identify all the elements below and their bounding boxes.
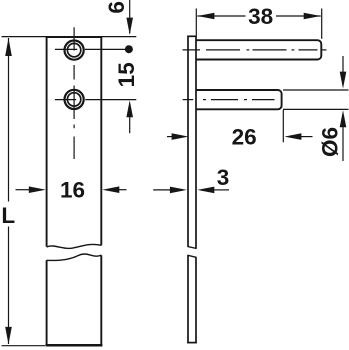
- front view: bar bottom edge: [45, 344, 102, 347]
- extension line for 26 (from pin P2 end, vertical): [282, 110, 284, 142]
- pin P2 centerline (dash-dot): [183, 99, 275, 101]
- dimension 3 left arrow tail: [153, 189, 170, 191]
- svg-text:3: 3: [217, 165, 230, 190]
- side view: plate left edge upper segment: [187, 36, 189, 247]
- arrow 26 left (points right at plate): [172, 133, 189, 140]
- svg-text:16: 16: [60, 177, 85, 202]
- front view: bar right edge upper segment: [100, 36, 102, 245]
- arrow 16 right (points left at bar right edge): [102, 186, 119, 193]
- extension line 38 right: [321, 9, 323, 39]
- hole H1 horizontal centerline: [55, 48, 77, 50]
- arrow O6 down: [340, 72, 347, 89]
- hole H1 inner circle: [67, 43, 80, 56]
- pin P1 centerline (dash-dot): [183, 49, 327, 51]
- arrow 26 right (points left at pin end extension): [284, 133, 301, 140]
- front view: flat bar top edge: [46, 36, 103, 38]
- hole H2 horizontal centerline / extension: [55, 99, 76, 101]
- arrow 6 down: [126, 18, 133, 35]
- dimension line O6 upper segment: [342, 56, 344, 73]
- arrow L down: [5, 327, 12, 345]
- svg-text:26: 26: [232, 125, 257, 150]
- dimension 16 right arrow tail: [119, 189, 127, 191]
- svg-text:15: 15: [114, 62, 139, 87]
- dimension 15 tail line: [129, 117, 131, 134]
- front view: break wavy line upper: [47, 244, 102, 248]
- hole H2 outer circle: [65, 90, 84, 109]
- pin P2 (lower, 26 long) outline with rounded end: [196, 90, 282, 109]
- extension line bottom left (bar bottom, for L): [2, 345, 46, 347]
- dimension 26 right arrow tail: [301, 136, 313, 138]
- vertical centerline of holes (dash-dot): [73, 27, 75, 159]
- side view: plate top cap: [187, 35, 197, 37]
- pin P1 (upper, 38 long) outline with rounded end: [196, 40, 321, 59]
- side view: plate bottom cap: [187, 342, 197, 344]
- front view: break wavy line lower: [47, 254, 102, 260]
- extension line O6 top (pin P2 top edge extended): [283, 89, 349, 91]
- arrow L up: [5, 38, 12, 56]
- extension line top left (bar top, for L): [2, 36, 47, 38]
- arrow 3 right (points left at plate right edge): [197, 187, 214, 194]
- extension line top right (bar top, for 6): [102, 36, 136, 38]
- dimension line 6 (vertical, x=129.7): [129, 0, 131, 34]
- dot marker at hole H1 center level: [125, 45, 133, 53]
- hole H1 outer circle: [65, 41, 84, 60]
- dimension 3 right arrow tail: [214, 189, 229, 191]
- dimension 16 left arrow tail: [16, 189, 30, 191]
- arrow O6 up: [340, 110, 347, 127]
- front view: bar left edge lower segment: [46, 260, 48, 346]
- side view: plate break upper cap (slanted): [187, 246, 196, 248]
- extension line O6 bottom (pin P2 bottom edge extended): [283, 108, 349, 110]
- arrow 3 left (points right at plate left edge): [170, 187, 187, 194]
- arrow 38 left: [197, 13, 214, 20]
- extension line 38 left: [195, 9, 197, 36]
- svg-text:6: 6: [104, 1, 129, 14]
- arrow 15 up (outside): [126, 100, 133, 117]
- side view: plate left edge lower segment: [187, 255, 189, 343]
- arrow 38 right: [304, 13, 321, 20]
- svg-text:L: L: [1, 203, 15, 228]
- side view: plate right edge upper segment: [195, 36, 197, 249]
- dimension line 38: [197, 15, 245, 17]
- front view: bar right edge lower segment: [100, 255, 102, 346]
- svg-text:38: 38: [248, 4, 273, 29]
- dimension line L (vertical, x=8.5): [8, 38, 10, 202]
- arrow 16 left (points right at bar left edge): [29, 186, 46, 193]
- front view: bar left edge upper segment: [46, 36, 48, 247]
- hole H2 inner circle: [67, 93, 80, 106]
- svg-text:Ø6: Ø6: [318, 127, 343, 157]
- dimension 26 left arrow tail: [167, 136, 173, 138]
- side view: plate break lower cap (slanted): [187, 255, 196, 257]
- side view: plate right edge lower segment: [195, 257, 197, 343]
- dimension line O6 lower segment: [342, 127, 344, 161]
